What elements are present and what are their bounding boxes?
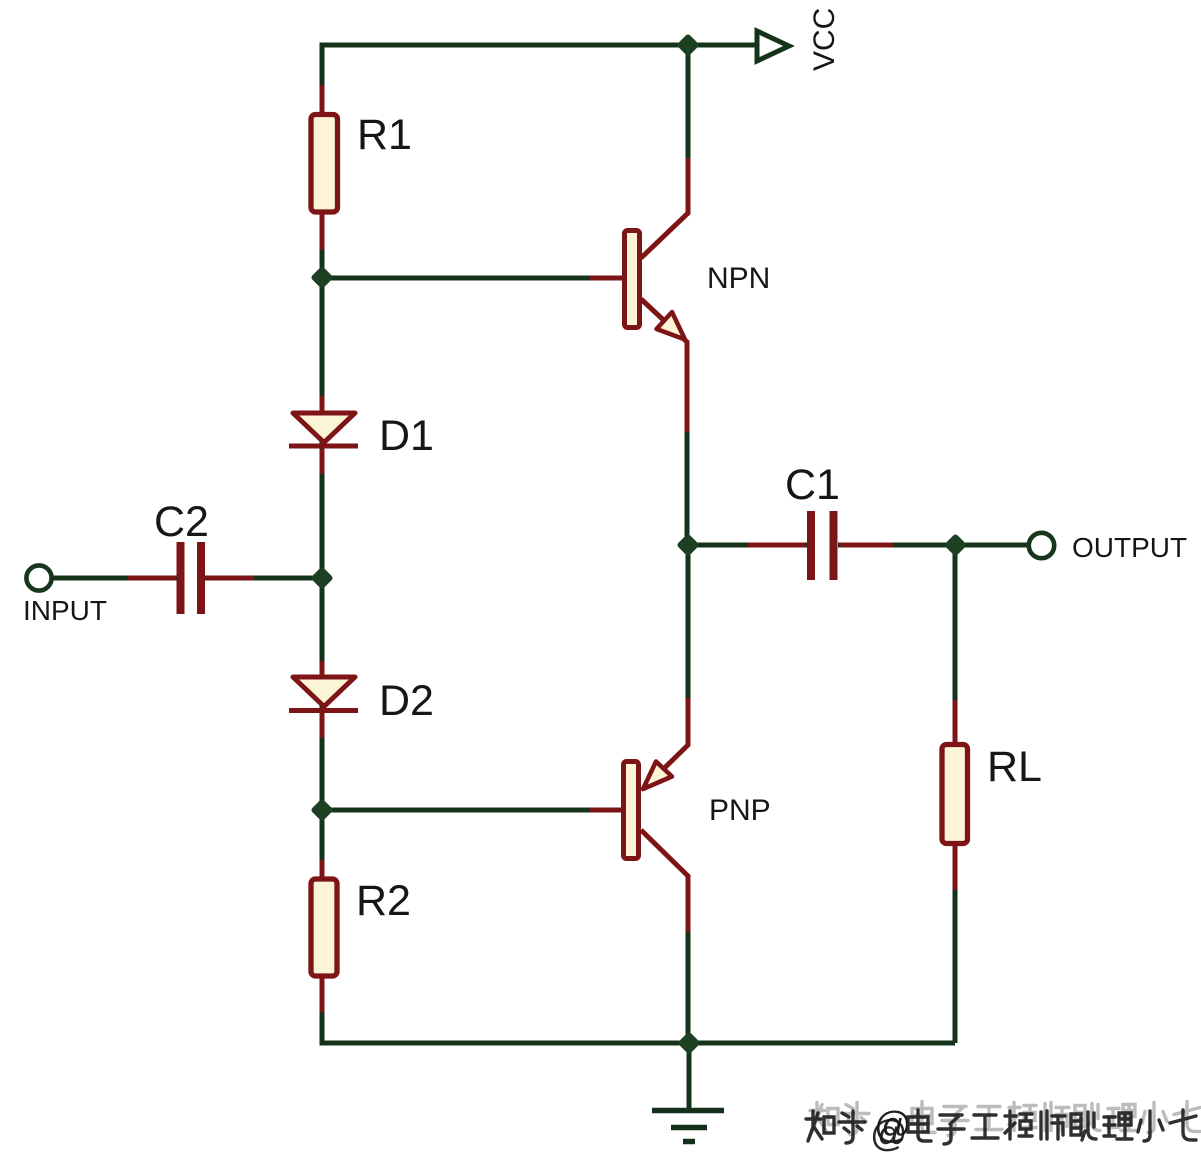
wire mid vertical VCC to NPN collector (686, 45, 691, 213)
svg-text:R1: R1 (357, 111, 412, 159)
diode D2 triangle (293, 677, 355, 707)
wire output node to output terminal (955, 543, 1029, 548)
svg-text:NPN: NPN (707, 262, 770, 295)
D2 pin stubs (red) (320, 661, 325, 738)
svg-text:INPUT: INPUT (23, 595, 107, 626)
output terminal circle (1029, 533, 1054, 558)
svg-text:D2: D2 (379, 677, 434, 725)
wire center node to C1 (688, 543, 807, 548)
PNP collector pin (red) (641, 830, 688, 932)
RL pin stubs (red) (953, 700, 958, 890)
PNP emitter pin (red) (648, 698, 688, 784)
wire right vertical from output node to bottom rail (953, 545, 958, 1043)
capacitor C2 plates (181, 542, 202, 614)
C2 pin stubs (red) (128, 576, 254, 581)
diode D1 triangle (293, 413, 355, 443)
node junction PNP base / D2-R2 (315, 803, 330, 818)
capacitor C1 plates (811, 511, 834, 580)
wire C2 to input node (205, 576, 322, 581)
diode D1 cathode bar (289, 444, 358, 449)
transistor NPN base bar (625, 231, 640, 328)
node junction NPN base / R1-D1 (315, 270, 330, 285)
NPN emitter pin (red) (641, 299, 687, 432)
PNP base pin (red) (590, 808, 621, 813)
wire PNP base (322, 808, 621, 813)
node junction input / D1-D2 (315, 571, 330, 586)
wire input terminal to C2 (52, 576, 177, 581)
node junction at VCC rail (681, 38, 696, 53)
ground symbol (652, 1111, 724, 1142)
svg-text:C2: C2 (154, 498, 209, 546)
R2 pin stubs (red) (320, 860, 325, 1012)
svg-text:VCC: VCC (808, 8, 841, 71)
svg-text:PNP: PNP (709, 794, 771, 827)
resistor R2 body (311, 879, 337, 976)
D1 pin stubs (red) (320, 396, 325, 474)
wire mid vertical PNP collector to bottom rail (686, 876, 691, 1043)
VCC arrow (757, 31, 789, 61)
wire C1 to output node (838, 543, 955, 548)
svg-text:C1: C1 (785, 461, 840, 509)
svg-text:@: @ (870, 1113, 908, 1154)
watermark 知乎 @电子工程师助理小七 (light layer) (810, 1102, 1200, 1146)
C1 pin stubs (red) (748, 543, 893, 548)
watermark 知乎 @电子工程师助理小七 (dark layer) (806, 1110, 1196, 1154)
NPN collector pin (red) (641, 158, 688, 258)
transistor NPN emitter arrow (657, 312, 686, 340)
svg-text:RL: RL (987, 743, 1042, 791)
resistor RL body (942, 745, 968, 844)
node junction ground (682, 1036, 697, 1051)
node junction center output (681, 538, 696, 553)
wire mid vertical NPN emitter to center node (685, 341, 690, 545)
R1 pin stubs (red) (320, 85, 325, 250)
transistor PNP base bar (624, 762, 639, 859)
wire top rail, left rail and bottom rail (322, 45, 955, 1043)
NPN base pin (red) (590, 276, 622, 281)
transistor PNP emitter arrow (643, 762, 672, 790)
svg-text:D1: D1 (379, 412, 434, 460)
node junction output / RL (948, 538, 963, 553)
wire ground stub (687, 1043, 692, 1108)
wire NPN base (322, 276, 622, 281)
svg-text:OUTPUT: OUTPUT (1072, 532, 1187, 563)
wire mid vertical center node to PNP emitter (686, 545, 691, 745)
resistor R1 body (311, 115, 338, 213)
input terminal circle (26, 565, 51, 590)
svg-text:R2: R2 (356, 877, 411, 925)
diode D2 cathode bar (289, 708, 358, 713)
